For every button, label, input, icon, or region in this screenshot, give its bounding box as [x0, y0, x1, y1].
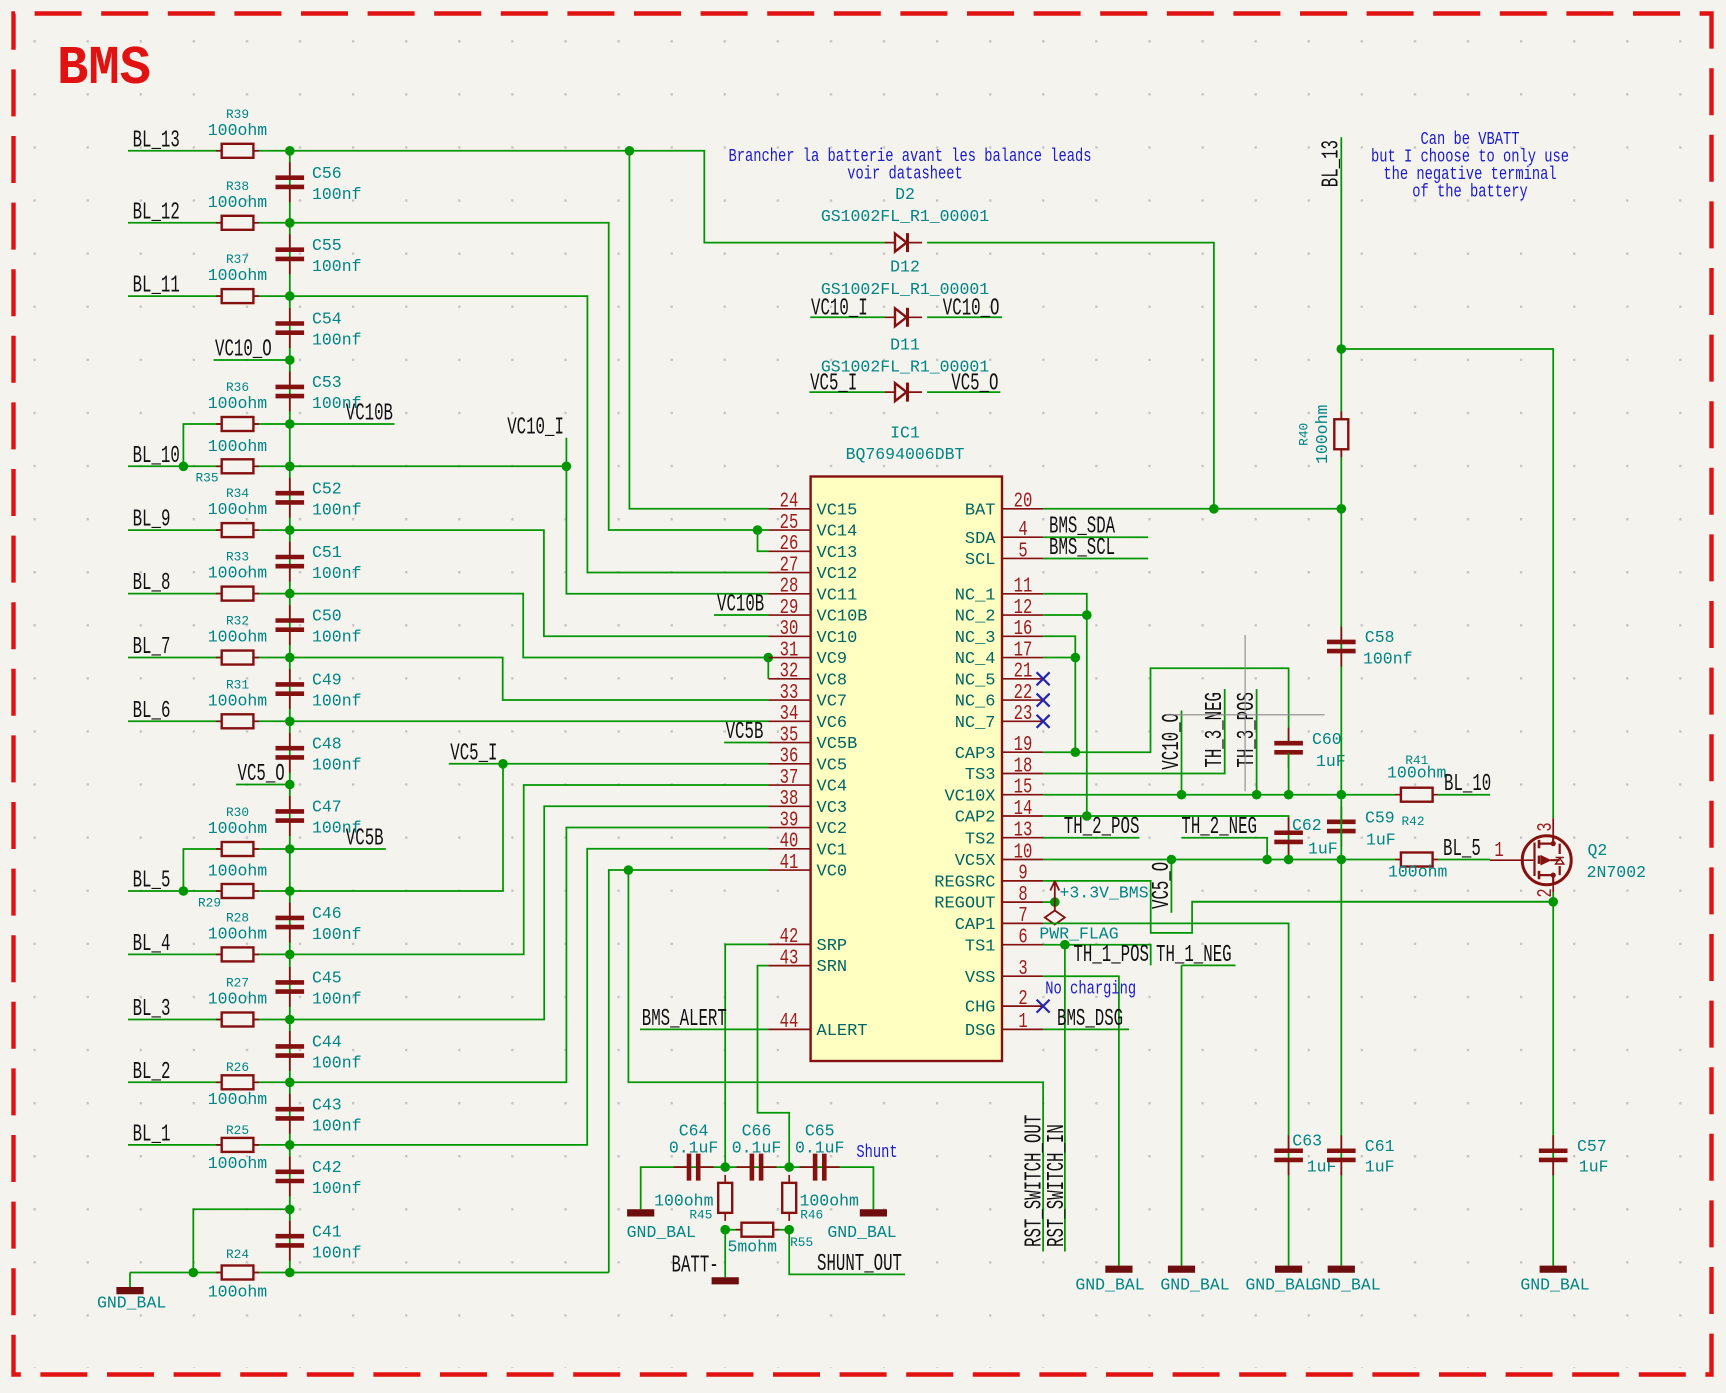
wire VC10_O stub	[1181, 711, 1183, 795]
svg-text:SCL: SCL	[965, 551, 996, 570]
svg-text:BL_5: BL_5	[1443, 836, 1481, 863]
junction BL_8/chain	[285, 589, 295, 599]
pin 18 TS3	[1002, 773, 1044, 775]
svg-text:27: 27	[780, 554, 799, 577]
pin 34 VC6	[769, 720, 811, 722]
svg-text:GND_BAL: GND_BAL	[97, 1294, 166, 1313]
svg-text:100ohm: 100ohm	[208, 193, 268, 212]
svg-text:NC_5: NC_5	[955, 671, 996, 690]
svg-text:PWR_FLAG: PWR_FLAG	[1039, 925, 1118, 944]
svg-text:CHG: CHG	[965, 999, 996, 1018]
capacitor C62	[1288, 817, 1290, 857]
wire BL_11 row/riser to pin27	[128, 296, 769, 572]
wire NC_4 stub	[1043, 657, 1075, 659]
svg-text:R31: R31	[226, 677, 249, 692]
wire BL_5 row/riser to VC5_I	[128, 764, 503, 891]
svg-text:R33: R33	[226, 550, 249, 565]
wire pin31-pin32 link	[767, 658, 769, 679]
capacitor C49	[289, 669, 291, 709]
svg-text:Shunt: Shunt	[856, 1143, 897, 1163]
svg-text:R36: R36	[226, 380, 249, 395]
svg-text:100ohm: 100ohm	[208, 628, 268, 647]
svg-text:GND_BAL: GND_BAL	[627, 1223, 696, 1242]
wire NC_3 route	[1043, 636, 1075, 752]
svg-text:NC_6: NC_6	[955, 693, 996, 712]
resistor R28	[216, 953, 259, 955]
junction VC10X/C58	[1337, 790, 1347, 800]
svg-text:100nf: 100nf	[312, 564, 362, 583]
svg-text:VC10_O: VC10_O	[943, 296, 1000, 323]
wire BL_8 row/riser to pin31	[128, 594, 769, 658]
svg-text:R30: R30	[226, 805, 249, 820]
wire shunt cap row	[641, 1167, 874, 1209]
junction TS1/RST_IN	[1060, 940, 1070, 950]
pin 16 NC_3	[1002, 635, 1044, 637]
wire CAP1 route to C63	[1043, 923, 1289, 1265]
wire RST_SWITCH_IN	[1064, 945, 1066, 1252]
wire VC5X line	[1043, 859, 1395, 861]
svg-text:6: 6	[1018, 927, 1027, 950]
svg-text:100ohm: 100ohm	[208, 1090, 268, 1109]
wire VC5_I stub to pin36	[449, 763, 769, 765]
junction VC5_O	[285, 780, 295, 790]
junction VC5X/VC5_O	[1167, 855, 1177, 865]
svg-text:C52: C52	[312, 479, 342, 498]
junction BL_3/chain	[285, 1015, 295, 1025]
svg-text:D11: D11	[890, 336, 920, 355]
svg-text:VC10X: VC10X	[944, 787, 995, 806]
junction VC5_I	[498, 759, 508, 769]
junction CAP2/NC1	[1082, 811, 1092, 821]
pin 3 VSS	[1002, 975, 1044, 977]
pin 1 DSG	[1002, 1028, 1044, 1030]
svg-text:C62: C62	[1292, 816, 1322, 835]
capacitor C54	[289, 308, 291, 348]
diode D11	[885, 391, 922, 393]
svg-text:43: 43	[780, 947, 799, 970]
wire trunk to Q2 drain	[1341, 349, 1553, 818]
svg-text:44: 44	[780, 1011, 799, 1034]
svg-text:100ohm: 100ohm	[208, 1283, 268, 1302]
svg-text:CAP2: CAP2	[955, 809, 996, 828]
wire R24 row to VC0 riser	[130, 1272, 609, 1274]
resistor R45	[724, 1175, 726, 1221]
wire R42 to Q2 gate	[1438, 859, 1490, 861]
wire D12 anode	[810, 316, 885, 318]
capacitor C58	[1340, 627, 1342, 667]
pin 35 VC5B	[769, 742, 811, 744]
IC U1 BQ7694006DBT body	[811, 477, 1002, 1062]
svg-text:100ohm: 100ohm	[1313, 405, 1332, 465]
svg-text:GND_BAL: GND_BAL	[827, 1223, 896, 1242]
svg-text:C45: C45	[312, 969, 342, 988]
svg-text:GND_BAL: GND_BAL	[1075, 1276, 1144, 1295]
svg-text:13: 13	[1014, 820, 1033, 843]
wire VC5_O stub down	[1170, 860, 1172, 913]
junction BAT/R40	[1337, 504, 1347, 514]
pin 10 VC5X	[1002, 859, 1044, 861]
pin 7 CAP1	[1002, 922, 1044, 924]
svg-text:19: 19	[1014, 734, 1033, 757]
svg-text:23: 23	[1014, 703, 1033, 726]
svg-text:BAT: BAT	[965, 501, 996, 520]
pin 19 CAP3	[1002, 751, 1044, 753]
pin 30 VC10	[769, 635, 811, 637]
svg-text:35: 35	[780, 724, 799, 747]
svg-text:C50: C50	[312, 607, 342, 626]
pin 39 VC2	[769, 827, 811, 829]
junction BL_10/R36 riser	[179, 462, 189, 472]
svg-text:R28: R28	[226, 910, 249, 925]
svg-text:VC0: VC0	[817, 863, 848, 882]
svg-text:37: 37	[780, 767, 799, 790]
svg-text:VC14: VC14	[817, 523, 858, 542]
resistor R36	[216, 423, 259, 425]
svg-text:100ohm: 100ohm	[208, 500, 268, 519]
svg-text:100nf: 100nf	[312, 755, 362, 774]
wire BAT	[1043, 508, 1341, 510]
svg-text:voir datasheet: voir datasheet	[847, 165, 963, 185]
svg-text:SHUNT_OUT: SHUNT_OUT	[817, 1251, 902, 1278]
wire ALERT	[640, 1028, 769, 1030]
svg-text:C55: C55	[312, 236, 342, 255]
pin 5 SCL	[1002, 557, 1044, 559]
svg-text:15: 15	[1014, 777, 1033, 800]
svg-text:42: 42	[780, 926, 799, 949]
junction pin31 link	[764, 653, 774, 663]
svg-text:VC5B: VC5B	[726, 719, 764, 746]
wire BL_6 row to pin34	[128, 720, 769, 722]
svg-text:41: 41	[780, 852, 799, 875]
svg-text:3: 3	[1535, 822, 1558, 831]
junction VC5X/TH_2_NEG	[1262, 855, 1272, 865]
svg-text:18: 18	[1014, 755, 1033, 778]
svg-text:100ohm: 100ohm	[1387, 764, 1447, 783]
junction BL_5/R30 riser	[179, 886, 189, 896]
junction bypass top	[285, 1205, 295, 1215]
wire REGSRC route	[1043, 881, 1553, 933]
svg-text:VC5X: VC5X	[955, 852, 996, 871]
svg-text:SRN: SRN	[817, 958, 848, 977]
wire VSS to GND	[1043, 976, 1119, 1265]
pin 17 NC_4	[1002, 657, 1044, 659]
junction BL_4/chain	[285, 950, 295, 960]
pin 36 VC5	[769, 763, 811, 765]
svg-text:TH_1_POS: TH_1_POS	[1073, 942, 1149, 969]
no-connect pin2 CHG	[1037, 1000, 1050, 1013]
svg-text:100ohm: 100ohm	[208, 394, 268, 413]
svg-text:100ohm: 100ohm	[208, 121, 268, 140]
wire BL_1 row/riser to pin40	[128, 849, 769, 1145]
svg-text:38: 38	[780, 788, 799, 811]
resistor R26	[216, 1081, 259, 1083]
pin 43 SRN	[769, 965, 811, 967]
svg-text:VC10B: VC10B	[346, 401, 393, 428]
svg-text:CAP1: CAP1	[955, 916, 996, 935]
svg-text:VC6: VC6	[817, 714, 848, 733]
pin 42 SRP	[769, 943, 811, 945]
svg-text:C42: C42	[312, 1158, 342, 1177]
wire TS3 route	[1043, 689, 1225, 774]
svg-text:100ohm: 100ohm	[208, 924, 268, 943]
svg-text:VC4: VC4	[817, 778, 848, 797]
pin 4 SDA	[1002, 536, 1044, 538]
pin 32 VC8	[769, 678, 811, 680]
pin 12 NC_2	[1002, 614, 1044, 616]
junction trunk	[1337, 344, 1347, 354]
pin 21 NC_5	[1002, 678, 1044, 680]
svg-text:VC13: VC13	[817, 544, 858, 563]
svg-text:25: 25	[780, 512, 799, 535]
svg-text:100ohm: 100ohm	[208, 437, 268, 456]
capacitor C50	[289, 605, 291, 645]
svg-text:12: 12	[1014, 597, 1033, 620]
svg-text:VC5: VC5	[817, 756, 848, 775]
capacitor C66	[737, 1166, 777, 1168]
svg-text:20: 20	[1014, 491, 1033, 514]
svg-text:100nf: 100nf	[312, 628, 362, 647]
svg-text:C57: C57	[1577, 1137, 1607, 1156]
junction VC10X/TH_3_POS	[1252, 790, 1262, 800]
capacitor C47	[289, 796, 291, 836]
wire SRN	[758, 966, 790, 1168]
svg-text:GS1002FL_R1_00001: GS1002FL_R1_00001	[821, 358, 989, 377]
svg-text:BL_13: BL_13	[1319, 140, 1346, 187]
wire GND_BAL stub left	[129, 1273, 131, 1288]
wire BL_13 row to D2	[128, 151, 885, 243]
svg-text:C56: C56	[312, 164, 342, 183]
svg-text:R27: R27	[226, 976, 249, 991]
junction bypass bottom	[189, 1268, 199, 1278]
no-connect pin22	[1037, 694, 1050, 707]
svg-text:100nf: 100nf	[312, 500, 362, 519]
capacitor C55	[289, 234, 291, 274]
pin 13 TS2	[1002, 837, 1044, 839]
ground GND_BAL TH_1_NEG	[1168, 1266, 1195, 1273]
pin 23 NC_7	[1002, 720, 1044, 722]
wire Q2 source	[1552, 892, 1554, 902]
svg-text:1uF: 1uF	[1308, 840, 1338, 859]
ground GND_BAL C63	[1275, 1266, 1302, 1273]
capacitor C56	[289, 162, 291, 202]
wire CAP2 route to C62	[1043, 816, 1289, 860]
wire D12 cathode	[927, 316, 1002, 318]
svg-text:TH_2_NEG: TH_2_NEG	[1181, 814, 1257, 841]
svg-text:D12: D12	[890, 258, 920, 277]
pin 40 VC1	[769, 848, 811, 850]
svg-text:TH_3_NEG: TH_3_NEG	[1202, 692, 1229, 768]
resistor R35	[216, 465, 259, 467]
wire cap-chain vertical	[289, 151, 291, 1273]
svg-text:NC_3: NC_3	[955, 629, 996, 648]
svg-text:GND_BAL: GND_BAL	[1245, 1276, 1314, 1295]
junction SRP/caps	[720, 1162, 730, 1172]
svg-text:1uF: 1uF	[1366, 831, 1396, 850]
svg-text:NC_2: NC_2	[955, 608, 996, 627]
svg-text:REGSRC: REGSRC	[934, 874, 995, 893]
pin 20 BAT	[1002, 508, 1044, 510]
svg-text:100nf: 100nf	[312, 185, 362, 204]
wire BMS_SCL	[1043, 557, 1148, 559]
svg-text:VC12: VC12	[817, 565, 858, 584]
junction R55 left	[720, 1225, 730, 1235]
junction BL_7/chain	[285, 653, 295, 663]
pin 22 NC_6	[1002, 699, 1044, 701]
junction BL_12/C55	[285, 218, 295, 228]
wire D11 cathode	[927, 391, 1000, 393]
svg-text:1uF: 1uF	[1579, 1158, 1609, 1177]
junction VC10_O	[285, 355, 295, 365]
svg-text:5: 5	[1018, 540, 1027, 563]
diode D2	[885, 242, 922, 244]
pin 44 ALERT	[769, 1028, 811, 1030]
resistor R33	[216, 593, 259, 595]
ground GND_BAL shunt left	[627, 1209, 654, 1216]
wire BL_13 riser to pin24	[629, 151, 768, 509]
svg-text:VC3: VC3	[817, 799, 848, 818]
svg-text:No charging: No charging	[1045, 980, 1136, 1000]
pin 8 REGOUT	[1002, 901, 1044, 903]
junction BL_9/chain	[285, 525, 295, 535]
junction R24/chain	[285, 1268, 295, 1278]
wire C41 bypass	[193, 1209, 289, 1272]
wire R55 row	[725, 1229, 789, 1231]
svg-text:100ohm: 100ohm	[208, 990, 268, 1009]
svg-text:of the battery: of the battery	[1412, 183, 1528, 203]
svg-text:100nf: 100nf	[312, 1179, 362, 1198]
capacitor C43	[289, 1094, 291, 1134]
capacitor C60	[1288, 728, 1290, 768]
svg-text:1uF: 1uF	[1365, 1158, 1395, 1177]
svg-text:C51: C51	[312, 543, 342, 562]
svg-text:GS1002FL_R1_00001: GS1002FL_R1_00001	[821, 280, 989, 299]
wire D2 cathode to BAT	[927, 243, 1214, 509]
svg-text:TS3: TS3	[965, 766, 996, 785]
power PWR_FLAG	[1045, 902, 1065, 924]
svg-text:4: 4	[1018, 519, 1027, 542]
wire NC_2 stub	[1043, 614, 1087, 616]
wire BL_4 row/riser to pin37	[128, 785, 769, 954]
wire TH_2_NEG	[1181, 838, 1267, 860]
junction BL_1/chain	[285, 1140, 295, 1150]
junction BL_2/chain	[285, 1078, 295, 1088]
svg-text:31: 31	[780, 639, 799, 662]
svg-text:GND_BAL: GND_BAL	[1311, 1276, 1380, 1295]
svg-text:Q2: Q2	[1588, 841, 1608, 860]
diode D12	[885, 316, 922, 318]
junction R30/chain	[285, 844, 295, 854]
svg-text:C60: C60	[1312, 730, 1342, 749]
junction BL_5/chain	[285, 886, 295, 896]
svg-text:TS1: TS1	[965, 937, 996, 956]
svg-text:+3.3V_BMS: +3.3V_BMS	[1060, 884, 1149, 903]
svg-text:VSS: VSS	[965, 969, 996, 988]
svg-text:100nf: 100nf	[312, 1116, 362, 1135]
svg-text:BL_10: BL_10	[1444, 771, 1491, 798]
capacitor C45	[289, 967, 291, 1007]
svg-text:C59: C59	[1365, 809, 1395, 828]
resistor R39	[216, 150, 259, 152]
svg-text:BMS_DSG: BMS_DSG	[1057, 1006, 1123, 1033]
svg-text:VC10B: VC10B	[817, 608, 868, 627]
resistor R29	[216, 890, 259, 892]
ground GND_BAL left	[116, 1287, 143, 1294]
svg-text:R34: R34	[226, 486, 249, 501]
svg-text:SDA: SDA	[965, 530, 996, 549]
svg-text:32: 32	[780, 661, 799, 684]
resistor R30	[216, 848, 259, 850]
svg-text:100nf: 100nf	[312, 257, 362, 276]
svg-text:VC8: VC8	[817, 671, 848, 690]
wire VC10B pin29 stub	[714, 614, 769, 616]
junction BL_10/chain	[285, 462, 295, 472]
svg-text:R35: R35	[195, 471, 218, 486]
pin 2 CHG	[1002, 1005, 1044, 1007]
capacitor C61	[1340, 1135, 1342, 1175]
wire TH_3_POS	[1256, 689, 1258, 795]
svg-text:R39: R39	[226, 107, 249, 122]
svg-text:BATT-: BATT-	[672, 1253, 719, 1280]
svg-text:R29: R29	[198, 896, 221, 911]
resistor R37	[216, 295, 259, 297]
svg-text:R26: R26	[226, 1060, 249, 1075]
svg-text:BQ7694006DBT: BQ7694006DBT	[846, 445, 965, 464]
pin 6 TS1	[1002, 944, 1044, 946]
wire REGOUT stub	[1043, 901, 1055, 903]
junction Q2 source	[1548, 897, 1558, 907]
wire pin25-pin26 link	[758, 530, 769, 551]
resistor R55	[736, 1229, 779, 1231]
resistor R24	[216, 1272, 259, 1274]
wire VC10X line	[1043, 794, 1395, 796]
resistor R40	[1340, 411, 1342, 457]
svg-text:VC10B: VC10B	[717, 592, 764, 619]
no-connect pin23	[1037, 715, 1050, 728]
svg-text:R38: R38	[226, 179, 249, 194]
junction R36/C53	[285, 419, 295, 429]
wire BMS_DSG	[1043, 1028, 1129, 1030]
svg-text:NC_1: NC_1	[955, 586, 996, 605]
capacitor C42	[289, 1156, 291, 1196]
svg-text:C48: C48	[312, 734, 342, 753]
resistor R27	[216, 1019, 259, 1021]
svg-text:100nf: 100nf	[312, 331, 362, 350]
junction BL_6/chain	[285, 717, 295, 727]
svg-text:CAP3: CAP3	[955, 745, 996, 764]
wire CAP3 route to C60	[1043, 668, 1289, 752]
pin 29 VC10B	[769, 614, 811, 616]
junction NC_4	[1071, 653, 1081, 663]
svg-text:0.1uF: 0.1uF	[732, 1139, 782, 1158]
svg-text:REGOUT: REGOUT	[934, 895, 995, 914]
svg-text:9: 9	[1018, 863, 1027, 886]
wire R36 row	[183, 424, 394, 466]
svg-text:VC10_O: VC10_O	[1159, 713, 1186, 770]
pin 41 VC0	[769, 869, 811, 871]
wire VC10_O stub	[214, 359, 290, 361]
capacitor C51	[289, 542, 291, 582]
transistor Q2 2N7002	[1490, 818, 1571, 892]
svg-text:24: 24	[780, 491, 799, 514]
resistor R38	[216, 222, 259, 224]
svg-text:VC10_I: VC10_I	[507, 414, 564, 441]
svg-text:14: 14	[1014, 798, 1033, 821]
resistor R25	[216, 1144, 259, 1146]
pin 24 VC15	[769, 508, 811, 510]
svg-text:TH_2_POS: TH_2_POS	[1064, 814, 1140, 841]
svg-text:2N7002: 2N7002	[1587, 863, 1646, 882]
junction BL_13/C56	[285, 146, 295, 156]
